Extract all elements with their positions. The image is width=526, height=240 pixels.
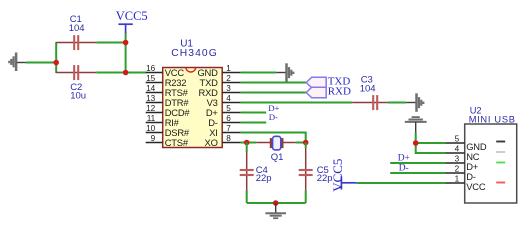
svg-text:D-: D- bbox=[269, 112, 278, 122]
svg-text:XO: XO bbox=[205, 137, 218, 148]
wire bbox=[305, 191, 307, 204]
svg-text:4: 4 bbox=[226, 94, 231, 103]
node RXD port flag bbox=[306, 86, 351, 98]
svg-text:11: 11 bbox=[147, 114, 156, 123]
power VCC5 bbox=[330, 159, 356, 192]
wire bbox=[406, 102, 416, 104]
capacitor C4 bbox=[240, 143, 254, 191]
label C5 value 22p bbox=[317, 165, 333, 184]
svg-text:3: 3 bbox=[455, 155, 460, 164]
ground bbox=[265, 203, 286, 218]
wire bbox=[17, 62, 26, 64]
svg-text:14: 14 bbox=[146, 84, 156, 93]
wire bbox=[356, 182, 445, 184]
pin 8 XO bbox=[205, 134, 241, 148]
node junction GND net bbox=[413, 140, 419, 146]
svg-text:2: 2 bbox=[455, 165, 460, 174]
node junction XO-C4 bbox=[244, 140, 250, 146]
svg-text:3: 3 bbox=[226, 84, 231, 93]
pin 10 DSR# bbox=[146, 124, 190, 138]
op-amp U2 connector body bbox=[465, 124, 517, 203]
svg-text:MINI USB: MINI USB bbox=[469, 115, 516, 125]
ground bbox=[405, 117, 427, 132]
label C2 value 10u bbox=[70, 82, 86, 102]
wire bbox=[246, 191, 248, 204]
pin 4 V3 bbox=[207, 94, 241, 108]
wire color legend green bbox=[496, 162, 505, 164]
label C4 value 22p bbox=[256, 165, 272, 184]
svg-text:5: 5 bbox=[226, 104, 231, 113]
svg-text:2: 2 bbox=[226, 74, 231, 83]
wire bbox=[390, 172, 445, 174]
capacitor C5 bbox=[299, 143, 313, 191]
wire bbox=[387, 102, 406, 104]
pin 15 R232 bbox=[146, 74, 187, 88]
svg-text:104: 104 bbox=[360, 84, 376, 95]
wire bbox=[241, 142, 257, 144]
wire bbox=[241, 112, 267, 114]
pin 13 DTR# bbox=[146, 94, 190, 108]
label U1 CH340G bbox=[171, 39, 218, 60]
wire bbox=[125, 33, 127, 73]
capacitor C1 bbox=[56, 35, 96, 50]
wire color legend white bbox=[496, 151, 505, 153]
svg-text:8: 8 bbox=[226, 134, 231, 143]
label C3 value 104 bbox=[360, 75, 376, 95]
wire bbox=[416, 142, 446, 144]
pin 4 NC bbox=[445, 145, 480, 163]
ground bbox=[287, 63, 294, 82]
capacitor C2 bbox=[56, 65, 96, 80]
wire bbox=[415, 133, 417, 144]
svg-text:D-: D- bbox=[399, 163, 409, 173]
pin 16 VCC bbox=[146, 64, 185, 78]
svg-text:RXD: RXD bbox=[328, 86, 351, 98]
svg-text:6: 6 bbox=[226, 114, 231, 123]
pin 7 XI bbox=[209, 124, 240, 138]
node junction XI-C5 bbox=[303, 140, 309, 146]
pin 9 CTS# bbox=[146, 134, 189, 148]
node junction gnd bbox=[273, 200, 279, 206]
ground bbox=[9, 53, 16, 72]
svg-text:10: 10 bbox=[146, 124, 156, 133]
label C1 value 104 bbox=[69, 14, 85, 34]
wire bbox=[241, 133, 306, 143]
svg-text:Q1: Q1 bbox=[271, 152, 284, 163]
svg-text:5: 5 bbox=[455, 135, 460, 144]
wire bbox=[96, 42, 125, 44]
pin 3 RXD bbox=[198, 84, 240, 98]
pin 1 VCC bbox=[445, 175, 486, 193]
pin 5 D+ bbox=[206, 104, 241, 118]
pin 5 GND bbox=[445, 135, 487, 153]
pin 11 RI# bbox=[146, 114, 180, 128]
svg-text:4: 4 bbox=[455, 145, 460, 154]
pin 14 RTS# bbox=[146, 84, 189, 98]
wire bbox=[241, 122, 267, 124]
wire color legend black bbox=[496, 141, 505, 143]
node junction VCC-C1 bbox=[123, 40, 129, 46]
wire bbox=[276, 72, 286, 74]
power VCC5 bbox=[116, 9, 148, 33]
svg-text:VCC: VCC bbox=[466, 181, 486, 192]
svg-text:VCC5: VCC5 bbox=[116, 9, 148, 23]
wire bbox=[55, 42, 57, 73]
wire bbox=[241, 102, 353, 104]
wire bbox=[390, 162, 445, 164]
op-amp U1 body bbox=[163, 68, 223, 148]
svg-text:104: 104 bbox=[69, 23, 85, 34]
capacitor C3 bbox=[352, 95, 387, 110]
svg-text:D+: D+ bbox=[398, 153, 410, 163]
wire bbox=[26, 62, 57, 64]
pin 2 D- bbox=[445, 165, 476, 183]
wire bbox=[241, 82, 307, 84]
node TXD port flag bbox=[306, 76, 350, 88]
wire bbox=[241, 92, 307, 94]
svg-text:9: 9 bbox=[151, 134, 156, 143]
wire bbox=[247, 202, 306, 204]
pin 6 D- bbox=[208, 114, 241, 128]
wire bbox=[296, 142, 306, 144]
svg-text:CH340G: CH340G bbox=[171, 48, 218, 59]
svg-text:16: 16 bbox=[146, 64, 156, 73]
ground bbox=[417, 93, 424, 112]
svg-text:CTS#: CTS# bbox=[165, 137, 189, 148]
pin 1 GND bbox=[197, 64, 240, 78]
svg-text:10u: 10u bbox=[70, 91, 86, 102]
svg-text:12: 12 bbox=[146, 104, 156, 113]
svg-text:13: 13 bbox=[146, 94, 156, 103]
svg-text:22p: 22p bbox=[256, 173, 272, 184]
node junction VCC-C2 bbox=[123, 70, 129, 76]
svg-text:7: 7 bbox=[226, 124, 231, 133]
wire color legend red bbox=[496, 182, 505, 184]
node junction C1-C2-gnd bbox=[53, 60, 59, 66]
transistor Q1 crystal bbox=[256, 136, 296, 150]
svg-text:1: 1 bbox=[226, 64, 231, 73]
wire bbox=[96, 72, 146, 74]
wire bbox=[416, 143, 446, 153]
pin 12 DCD# bbox=[146, 104, 191, 118]
pin 3 D+ bbox=[445, 155, 479, 173]
pin 2 TXD bbox=[200, 74, 241, 88]
svg-text:VCC5: VCC5 bbox=[330, 159, 345, 192]
label U2 MINI USB bbox=[469, 106, 516, 125]
svg-text:15: 15 bbox=[146, 74, 156, 83]
svg-text:1: 1 bbox=[455, 175, 460, 184]
wire bbox=[241, 72, 277, 74]
